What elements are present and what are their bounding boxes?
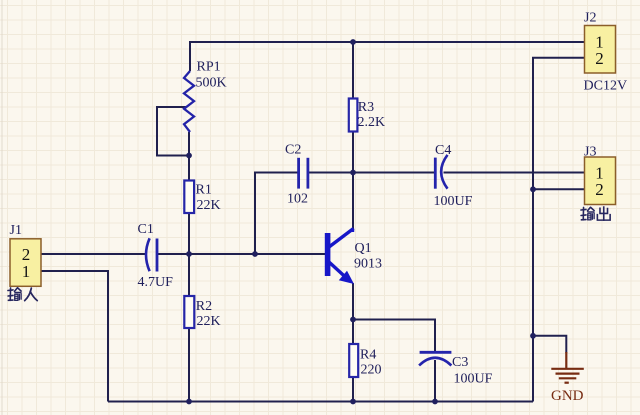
junction GND branch: [530, 333, 536, 339]
svg-text:R2: R2: [196, 299, 212, 314]
wire ground column up to J2 pin 2: [533, 58, 585, 402]
wire emitter node to C3: [353, 320, 435, 353]
wire bottom rail: [108, 401, 533, 403]
capacitor C2: [285, 143, 308, 207]
svg-text:RP1: RP1: [197, 60, 221, 75]
transistor Q1: [325, 229, 382, 285]
wire C4 to J3 pin 1: [444, 172, 585, 174]
svg-text:C2: C2: [285, 143, 301, 158]
connector J3: [584, 145, 616, 205]
junction base net C2: [252, 251, 258, 257]
svg-text:R3: R3: [358, 100, 374, 115]
svg-text:J3: J3: [584, 145, 596, 160]
wire RP1 wiper loop: [157, 107, 189, 156]
wire C3 bottom to rail: [434, 360, 436, 402]
capacitor C1: [138, 222, 174, 290]
junction RP1 wiper: [186, 153, 192, 159]
wire J3 pin 2: [533, 188, 585, 190]
junction rail C3: [432, 399, 438, 405]
wire collector drop: [352, 173, 354, 229]
label output (Chinese): [581, 207, 610, 220]
wire RP1 bottom to R1: [188, 132, 190, 181]
wire R1 bottom to base net: [188, 213, 190, 255]
wire C2 right to node: [308, 172, 353, 174]
svg-text:J1: J1: [10, 223, 22, 238]
svg-text:100UF: 100UF: [434, 194, 473, 209]
resistor R1: [184, 181, 220, 214]
svg-text:102: 102: [287, 192, 308, 207]
svg-text:220: 220: [361, 363, 382, 378]
connector J1: [10, 223, 42, 286]
svg-text:500K: 500K: [196, 76, 227, 91]
junction rail R2: [186, 399, 192, 405]
resistor R3: [349, 99, 385, 132]
svg-text:2: 2: [595, 49, 604, 68]
wire R2 bottom to rail: [188, 328, 190, 402]
wire J1 pin 2 to C1: [41, 253, 147, 255]
svg-text:C4: C4: [435, 143, 451, 158]
svg-text:22K: 22K: [197, 198, 221, 213]
svg-text:22K: 22K: [197, 314, 221, 329]
wire R3 bottom to node: [352, 132, 354, 173]
wire R3 top: [352, 42, 354, 99]
svg-text:C3: C3: [452, 355, 468, 370]
wire top rail from RP1 top to J2 pin 1: [190, 42, 585, 71]
wire emitter node to R4: [352, 320, 354, 345]
wire base net to R2: [188, 254, 190, 297]
svg-text:R1: R1: [196, 183, 212, 198]
wire J1 pin 1 down to bottom rail: [41, 271, 108, 402]
svg-text:GND: GND: [551, 388, 584, 404]
svg-text:R4: R4: [360, 348, 376, 363]
svg-text:J2: J2: [584, 11, 596, 26]
svg-text:C1: C1: [138, 222, 154, 237]
resistor R2: [184, 296, 220, 329]
resistor R4: [349, 344, 381, 378]
svg-text:Q1: Q1: [355, 241, 372, 256]
potentiometer RP1: [184, 60, 227, 133]
wire base net C1 to Q1 base: [157, 253, 326, 255]
wire R4 bottom to rail: [352, 377, 354, 402]
junction base net R1 R2: [186, 251, 192, 257]
ground symbol: [551, 352, 584, 404]
svg-text:100UF: 100UF: [454, 372, 493, 387]
capacitor C4: [434, 143, 473, 209]
capacitor C3: [419, 352, 493, 386]
wire emitter down: [352, 283, 354, 320]
junction J3 pin2: [530, 186, 536, 192]
label input (Chinese): [8, 288, 37, 301]
junction rail R4: [350, 399, 356, 405]
svg-text:9013: 9013: [354, 257, 382, 272]
svg-text:2: 2: [595, 180, 604, 199]
svg-text:1: 1: [22, 262, 31, 281]
junction emitter node: [350, 317, 356, 323]
junction collector node: [350, 170, 356, 176]
wire C2 left down to base net: [255, 173, 299, 255]
svg-text:4.7UF: 4.7UF: [138, 275, 174, 290]
wire node to C4: [353, 172, 435, 174]
junction top rail R3: [350, 39, 356, 45]
connector J2: [584, 11, 628, 94]
svg-text:2.2K: 2.2K: [358, 115, 386, 130]
wire GND branch: [533, 336, 566, 353]
svg-text:DC12V: DC12V: [584, 79, 628, 94]
